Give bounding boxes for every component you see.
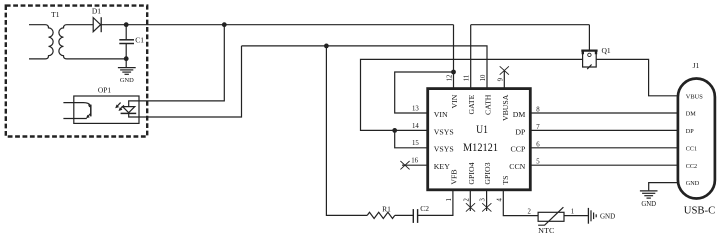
svg-text:TS: TS <box>501 175 510 184</box>
svg-text:GND: GND <box>641 201 656 208</box>
svg-text:USB-C: USB-C <box>684 205 716 216</box>
svg-text:VIN: VIN <box>450 94 459 108</box>
OP1 phototransistor emitter stub <box>63 118 86 120</box>
svg-text:VBUSA: VBUSA <box>501 94 510 121</box>
dashed module boundary box <box>6 6 147 137</box>
svg-text:CCP: CCP <box>511 145 526 154</box>
transistor Q1 gate bar end tabs <box>583 50 596 55</box>
ground symbol under J1 <box>640 191 658 198</box>
wire: OP1 cathode to CATH rail <box>139 46 242 117</box>
wire: NTC to ground <box>564 215 588 217</box>
wire: U1 pin 11 GATE to Q1 gate <box>471 25 590 89</box>
optocoupler OP1 body <box>74 96 139 123</box>
svg-text:14: 14 <box>412 123 419 130</box>
pin 16 KEY stub <box>402 164 429 166</box>
no-connect X on pin 2 <box>466 203 475 211</box>
OP1 phototransistor base bar <box>90 105 92 117</box>
wire: OP1 anode to VIN rail <box>139 25 224 101</box>
connector J1 body <box>678 79 715 199</box>
svg-text:16: 16 <box>411 158 418 165</box>
OP1 LED anode link <box>129 101 139 107</box>
OP1 LED cathode bar <box>121 112 137 114</box>
svg-text:T1: T1 <box>51 10 60 19</box>
wire: VIN rail down to U1 pin 12 <box>453 25 455 89</box>
svg-text:CC2: CC2 <box>686 163 697 170</box>
svg-text:GPIO4: GPIO4 <box>467 162 476 184</box>
OP1 LED light arrow 1 <box>115 103 120 109</box>
svg-text:R1: R1 <box>382 204 391 213</box>
resistor R1 <box>367 212 395 218</box>
wire: VSYS rail Q1 source to U1 pin 14 <box>361 59 583 130</box>
wire: U1 pin 5 CCN to J1 <box>530 164 678 166</box>
node: transformer return junction <box>124 56 129 61</box>
OP1 LED light arrow 2 <box>119 105 124 111</box>
diode D1 <box>93 17 101 32</box>
OP1 phototransistor emitter arrowhead <box>86 115 90 119</box>
svg-text:J1: J1 <box>693 61 700 70</box>
op-amp U1 body (M12121 controller) <box>428 89 531 190</box>
svg-text:VSYS: VSYS <box>434 127 454 136</box>
wire: C2 to U1 pin 1 VFB <box>418 190 453 216</box>
capacitor C1 <box>119 25 134 67</box>
ground symbol under C1 <box>118 68 136 75</box>
wire: D1 cathode to U1 pin 12 (VIN rail) <box>101 24 453 26</box>
svg-text:VIN: VIN <box>434 110 448 119</box>
wire: R1 to C2 <box>395 214 413 216</box>
pin 3 GPIO3 stub <box>486 190 488 211</box>
svg-text:13: 13 <box>412 105 419 112</box>
svg-text:1: 1 <box>446 198 453 201</box>
svg-text:GND: GND <box>600 213 615 221</box>
svg-text:2: 2 <box>463 198 470 202</box>
no-connect X on pin 16 <box>400 161 409 169</box>
capacitor C2 <box>413 209 417 223</box>
wire: Q1 drain to J1 VBUS <box>596 59 678 95</box>
svg-text:Q1: Q1 <box>602 46 611 55</box>
svg-text:10: 10 <box>480 74 487 81</box>
pin 9 VBUSA stub <box>503 71 505 89</box>
svg-text:4: 4 <box>496 198 503 202</box>
ground symbol at NTC (rotated) <box>588 208 596 224</box>
svg-text:C2: C2 <box>420 204 429 213</box>
svg-text:CC1: CC1 <box>686 145 697 152</box>
svg-text:DM: DM <box>686 111 696 118</box>
node: C1 top junction <box>124 22 129 27</box>
svg-text:KEY: KEY <box>434 162 450 171</box>
node: OP1 anode tap on VIN rail <box>222 22 227 27</box>
no-connect X on pin 3 <box>482 203 491 211</box>
transistor Q1 gate wire <box>588 25 590 51</box>
svg-text:OP1: OP1 <box>98 86 112 95</box>
OP1 phototransistor emitter <box>87 114 91 118</box>
wire: U1 pin 8 DM to J1 <box>530 112 678 114</box>
svg-text:D1: D1 <box>92 7 101 16</box>
svg-text:CATH: CATH <box>484 94 493 115</box>
no-connect X on pin 9 <box>500 66 509 74</box>
node: pin 12 / pin 13 tie <box>451 70 456 75</box>
svg-text:GND: GND <box>120 77 134 84</box>
node: feedback tap on CATH rail <box>324 44 329 49</box>
svg-text:GND: GND <box>686 180 700 187</box>
node: VSYS tie pin14/pin15 <box>392 128 397 133</box>
OP1 phototransistor collector arrowhead <box>88 104 91 107</box>
svg-text:CCN: CCN <box>509 162 525 171</box>
wire: J1 GND pin to ground <box>649 183 678 191</box>
thermistor NTC slash <box>538 207 563 225</box>
svg-text:12: 12 <box>447 74 454 81</box>
wire: CATH tap down to R1 <box>326 46 367 216</box>
svg-text:2: 2 <box>527 209 531 216</box>
transformer T1 secondary winding <box>59 25 126 59</box>
svg-text:NTC: NTC <box>538 226 554 235</box>
wire: U1 pin 4 TS to NTC <box>503 190 538 216</box>
svg-text:DP: DP <box>686 128 694 135</box>
wire: CATH rail to U1 pin 10 <box>242 46 488 89</box>
transistor Q1 body circle <box>588 53 591 56</box>
wire: VSYS tie to U1 pin 15 <box>395 130 429 147</box>
svg-text:1: 1 <box>571 209 574 216</box>
svg-text:DM: DM <box>513 110 526 119</box>
svg-text:VSYS: VSYS <box>434 145 454 154</box>
svg-text:U1: U1 <box>476 124 488 136</box>
svg-text:GATE: GATE <box>467 94 476 114</box>
transistor Q1 substrate slash <box>587 65 591 70</box>
transistor Q1 channel legs <box>583 54 597 67</box>
svg-text:VFB: VFB <box>449 169 458 184</box>
svg-text:9: 9 <box>497 77 504 81</box>
wire: VIN tie to U1 pin 13 <box>395 72 454 113</box>
svg-text:M12121: M12121 <box>463 142 498 154</box>
transistor Q1 gate bar <box>581 49 597 51</box>
transformer T1 primary winding <box>29 25 53 59</box>
svg-text:DP: DP <box>515 127 526 136</box>
wire: U1 pin 6 CCP to J1 <box>530 147 678 149</box>
pin 2 GPIO4 stub <box>469 190 471 211</box>
wire: U1 pin 7 DP to J1 <box>530 129 678 131</box>
OP1 LED cathode link <box>129 113 139 117</box>
svg-text:15: 15 <box>412 140 419 147</box>
svg-text:GPIO3: GPIO3 <box>483 162 492 184</box>
svg-text:C1: C1 <box>135 36 144 45</box>
OP1 LED triangle <box>123 107 135 113</box>
svg-text:VBUS: VBUS <box>686 93 704 100</box>
thermistor NTC body <box>538 212 564 221</box>
svg-text:3: 3 <box>480 198 487 202</box>
svg-text:11: 11 <box>464 75 471 82</box>
OP1 phototransistor collector stub <box>63 103 90 106</box>
